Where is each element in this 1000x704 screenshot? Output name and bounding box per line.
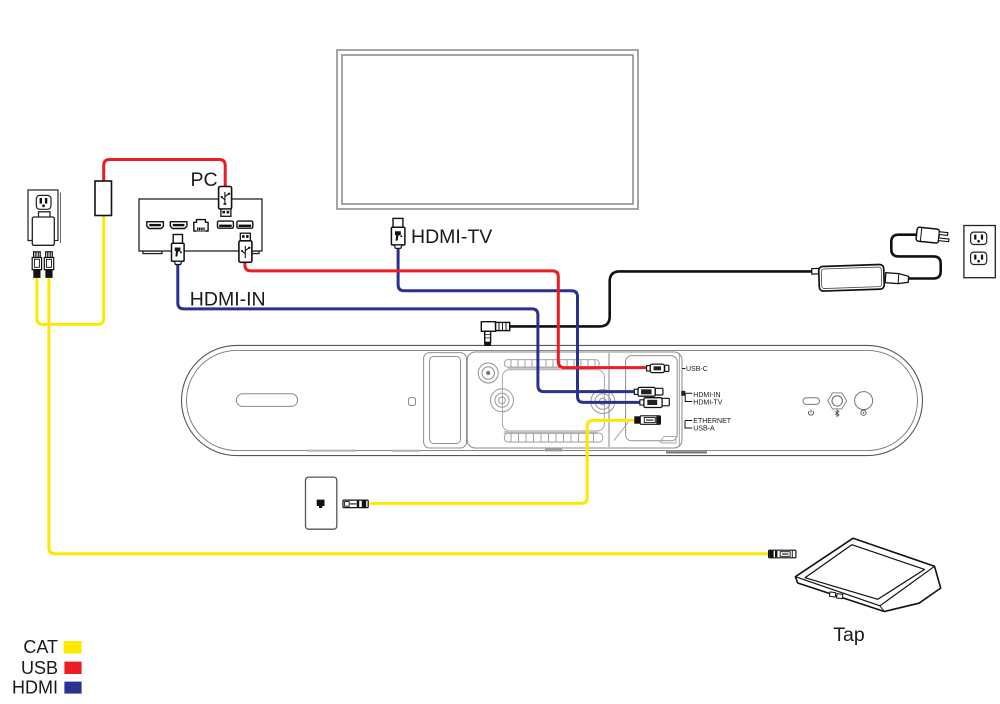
wire USB red PC-to-bar — [245, 262, 651, 368]
right wall outlet plate — [964, 226, 995, 278]
bar bluetooth button — [828, 393, 847, 409]
PC box — [139, 199, 262, 254]
bar panel diagonal mark — [614, 423, 628, 441]
svg-text:HDMI-TV: HDMI-TV — [411, 226, 492, 248]
svg-text:HDMI-TV: HDMI-TV — [693, 399, 722, 406]
bar speaker button — [855, 392, 873, 410]
Tap device — [795, 538, 940, 611]
wall jack socket icon — [317, 500, 325, 508]
bar ethernet/usb-a bracket — [685, 421, 692, 429]
bar vent shadow bottom — [504, 431, 598, 434]
svg-text:USB-C: USB-C — [686, 366, 708, 373]
PC HDMI port 2 — [170, 222, 187, 229]
bar left pill slot — [236, 394, 297, 407]
svg-text:CAT: CAT — [23, 637, 58, 657]
bar camera lens small — [478, 363, 498, 383]
svg-text:HDMI: HDMI — [12, 678, 58, 698]
svg-text:PC: PC — [191, 169, 218, 191]
ethernet plug at Tap cable — [769, 550, 796, 558]
USB plug into PC top — [219, 187, 232, 217]
AC plug — [916, 227, 950, 244]
wire USB red PC-top — [104, 160, 226, 188]
svg-text:USB-A: USB-A — [693, 425, 715, 432]
RJ45 plug right — [44, 252, 53, 278]
PC USB port 1 — [218, 221, 234, 228]
bar lens right — [591, 390, 615, 414]
bar HDMI labels bracket — [681, 391, 692, 402]
bar small square mark — [409, 398, 416, 406]
AC inlet connector — [885, 273, 909, 285]
svg-text:HDMI-IN: HDMI-IN — [190, 288, 266, 310]
bar speaker panel — [424, 353, 467, 448]
wire black power cable — [510, 271, 820, 326]
power brick — [812, 264, 885, 291]
bar ports panel foot mark — [660, 437, 676, 444]
PC HDMI port 1 — [147, 222, 164, 229]
svg-text:USB: USB — [21, 658, 58, 678]
USB plug under PC right — [239, 233, 252, 262]
bar panel divider — [608, 353, 610, 447]
wire HDMI-IN blue — [178, 263, 637, 392]
bar speaker glyph — [861, 410, 866, 415]
bar label strip — [545, 449, 562, 452]
svg-text:HDMI-IN: HDMI-IN — [693, 392, 720, 399]
bar HDMI-TV connector — [640, 398, 669, 408]
legend CAT swatch — [64, 641, 82, 654]
right outlet receptacle bottom — [971, 252, 987, 264]
bar USB-C connector — [647, 364, 669, 373]
wall ethernet jack plate — [306, 477, 337, 529]
bar bottom vent — [504, 433, 602, 442]
bar center panel — [467, 352, 682, 448]
RJ45 plug left — [32, 252, 41, 278]
right outlet receptacle top — [971, 232, 987, 244]
TV display — [337, 50, 638, 209]
HDMI plug under PC — [172, 235, 185, 265]
PC ethernet port — [194, 220, 208, 231]
bar ports sub-panel — [626, 356, 678, 441]
bar USB-C label tick — [682, 368, 685, 370]
wire HDMI-TV blue — [398, 248, 642, 403]
svg-text:Tap: Tap — [833, 624, 865, 646]
wire CAT yellow long to Tap — [49, 276, 770, 554]
bar mid rounded plate — [502, 370, 604, 431]
PC USB port 2 — [237, 221, 253, 228]
bar pill button — [803, 398, 820, 405]
legend USB swatch — [64, 662, 81, 674]
bar panel inner edge line — [678, 353, 680, 447]
wire CAT yellow outlet-to-injector — [37, 216, 104, 324]
bar right shadow strip — [666, 451, 707, 453]
wire CAT yellow bar-to-walljack — [370, 420, 636, 503]
svg-text:ETHERNET: ETHERNET — [693, 418, 731, 425]
bar bluetooth glyph — [835, 410, 839, 417]
bar HDMI-IN connector — [634, 387, 663, 396]
injector box — [95, 181, 112, 216]
legend HDMI swatch — [64, 682, 81, 694]
wall-wart adapter on plate — [32, 212, 54, 246]
bar vent shadow top — [508, 367, 560, 369]
HDMI-TV plug under TV — [391, 218, 405, 248]
bar power glyph — [809, 410, 814, 415]
bar top vent — [504, 360, 599, 367]
left outlet receptacle — [36, 195, 51, 209]
bar under-shadow strips — [306, 450, 420, 452]
ethernet plug at wall jack — [343, 500, 368, 508]
DC right-angle connector — [481, 322, 509, 345]
bar ethernet connector — [634, 416, 660, 425]
sound bar body — [182, 345, 923, 455]
left wall outlet plate — [28, 190, 61, 243]
bar camera lens main — [491, 389, 514, 412]
AC power cord — [891, 235, 940, 279]
